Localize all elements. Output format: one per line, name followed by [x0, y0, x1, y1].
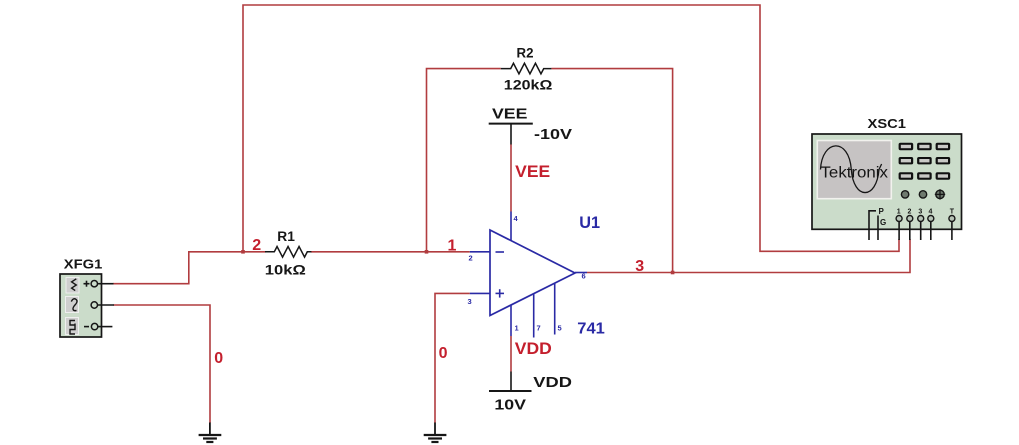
function generator XFG1 body	[60, 274, 102, 337]
label G	[880, 218, 886, 227]
label XSC1	[868, 117, 907, 131]
node label 1	[448, 237, 457, 254]
svg-text:120kΩ: 120kΩ	[504, 77, 553, 93]
pin number 7	[537, 324, 541, 333]
svg-text:0: 0	[439, 345, 448, 362]
svg-text:4: 4	[929, 209, 933, 216]
node label 3	[635, 258, 644, 275]
label 741	[577, 321, 605, 338]
ground (left, under XFG1 common)	[199, 423, 222, 443]
svg-text:2: 2	[252, 237, 261, 254]
svg-text:P: P	[879, 207, 885, 216]
net label VDD (red)	[515, 340, 552, 358]
pin number 6	[582, 272, 586, 281]
value 120kΩ	[504, 77, 553, 93]
value -10V	[534, 126, 572, 143]
svg-text:3: 3	[468, 297, 472, 306]
pin number 3	[468, 297, 472, 306]
Tektronix text	[821, 165, 889, 182]
svg-text:VEE: VEE	[515, 163, 550, 181]
svg-text:4: 4	[514, 214, 519, 223]
label XFG1	[64, 257, 103, 271]
wire op-amp pin 1 to VDD supply	[510, 336, 512, 372]
label R2	[517, 45, 534, 60]
wire node 1 up to R2 left	[427, 69, 501, 252]
node label 0 (opamp + ground)	[439, 345, 448, 362]
wire node 2 to R1	[243, 251, 266, 253]
label P	[879, 207, 885, 216]
XSC1 ground G lead	[877, 216, 879, 241]
XSC1 knob 3	[935, 189, 945, 199]
XSC1 terminal 1	[896, 209, 902, 241]
XSC1 probe P marker and lead	[869, 211, 876, 240]
junction node 2	[241, 250, 245, 254]
svg-text:R2: R2	[517, 45, 534, 60]
XFG1 minus terminal lead	[98, 326, 113, 328]
XSC1 screen sine wave	[821, 146, 882, 193]
svg-text:1: 1	[897, 209, 901, 216]
svg-text:1: 1	[515, 324, 519, 333]
op-amp pin 2 inverting input	[470, 251, 490, 253]
svg-text:XSC1: XSC1	[868, 117, 907, 131]
XFG1 sine button	[66, 278, 79, 294]
wire R2 right down to output node 3	[551, 69, 672, 273]
svg-text:3: 3	[918, 209, 922, 216]
node label 0 (left ground)	[214, 350, 223, 367]
svg-text:VEE: VEE	[492, 106, 527, 123]
XFG1 plus terminal lead	[98, 283, 114, 285]
XSC1 screen	[817, 141, 891, 199]
svg-text:-10V: -10V	[534, 126, 572, 143]
junction node 1	[425, 250, 429, 254]
wire op-amp + input to ground	[435, 293, 470, 423]
svg-text:VDD: VDD	[515, 340, 552, 358]
value 10V	[494, 396, 526, 413]
op-amp pin 5 bottom	[554, 283, 556, 335]
op-amp pin 1 bottom	[510, 305, 512, 336]
wire R1 to node 1	[311, 251, 427, 253]
label VEE (supply)	[492, 106, 527, 123]
net label VEE (red)	[515, 163, 550, 181]
op-amp pin 4 top	[510, 212, 512, 242]
VDD power symbol	[489, 372, 532, 392]
wire XFG1 common terminal down to ground	[113, 305, 210, 423]
XFG1 common terminal lead	[98, 304, 115, 306]
value 10kΩ	[265, 261, 306, 277]
op-amp minus symbol	[496, 251, 505, 253]
pin number 4	[514, 214, 519, 223]
XFG1 plus terminal	[84, 281, 98, 287]
wire output node 3 to scope channel 2	[587, 239, 910, 273]
op-amp U1 triangle	[490, 230, 575, 316]
XSC1 trigger terminal T	[949, 209, 955, 241]
svg-text:XFG1: XFG1	[64, 257, 103, 271]
svg-text:5: 5	[558, 324, 562, 333]
svg-text:U1: U1	[579, 214, 600, 232]
wire node 1 to op-amp inverting input	[427, 251, 470, 253]
XFG1 minus terminal	[84, 323, 98, 329]
XFG1 common terminal	[91, 302, 97, 308]
op-amp pin 7 bottom middle	[533, 293, 535, 337]
pin number 2	[469, 254, 473, 263]
resistor R1	[265, 247, 311, 258]
node label 2	[252, 237, 261, 254]
op-amp pin 3 non-inverting input	[470, 292, 490, 294]
wire VEE supply to op-amp pin 4	[510, 145, 512, 212]
wire top rail: node 2 up, across, down to scope channel 1	[243, 5, 899, 252]
wire from XFG1 + terminal to node 2	[113, 252, 243, 284]
XSC1 knob 1	[901, 191, 908, 198]
svg-text:R1: R1	[277, 229, 295, 244]
VEE power symbol	[489, 124, 533, 145]
svg-text:741: 741	[577, 321, 605, 338]
pin number 1	[515, 324, 519, 333]
svg-text:7: 7	[537, 324, 541, 333]
svg-text:2: 2	[469, 254, 473, 263]
svg-text:Tektronix: Tektronix	[821, 165, 889, 182]
svg-text:VDD: VDD	[533, 374, 572, 391]
svg-text:0: 0	[214, 350, 223, 367]
label R1	[277, 229, 295, 244]
svg-text:10kΩ: 10kΩ	[265, 261, 306, 277]
XSC1 knob 2	[919, 191, 926, 198]
op-amp pin 6 output	[575, 272, 587, 274]
ground (under op-amp + input)	[424, 423, 447, 443]
svg-text:1: 1	[448, 237, 457, 254]
XSC1 terminal 4	[928, 209, 934, 241]
op-amp plus symbol	[496, 289, 505, 297]
XSC1 terminal 2	[907, 209, 913, 241]
oscilloscope XSC1 body	[812, 134, 962, 229]
XSC1 terminal 3	[918, 209, 924, 241]
svg-text:2: 2	[908, 209, 912, 216]
label VDD (supply)	[533, 374, 572, 391]
svg-text:10V: 10V	[494, 396, 526, 413]
label U1	[579, 214, 600, 232]
pin number 5	[558, 324, 562, 333]
svg-text:G: G	[880, 218, 886, 227]
XFG1 triangle button	[66, 297, 79, 313]
resistor R2	[501, 63, 552, 74]
svg-text:T: T	[950, 209, 955, 216]
XFG1 square button	[66, 318, 79, 335]
XSC1 button grid	[899, 143, 951, 180]
svg-text:3: 3	[635, 258, 644, 275]
svg-text:6: 6	[582, 272, 586, 281]
junction node 3	[671, 271, 675, 275]
